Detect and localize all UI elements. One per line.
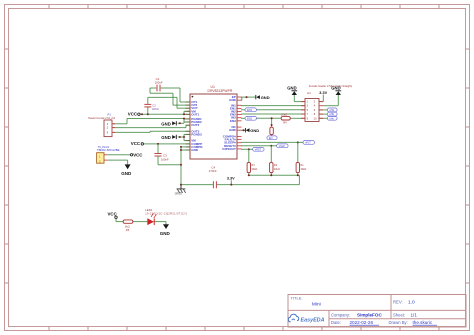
svg-text:GND: GND <box>250 128 259 133</box>
svg-text:EN3: EN3 <box>230 119 236 123</box>
svg-text:100nF: 100nF <box>155 80 163 84</box>
svg-text:GND: GND <box>261 95 270 100</box>
svg-text:V3P3OUT: V3P3OUT <box>222 147 236 151</box>
svg-text:Company:: Company: <box>331 313 350 318</box>
svg-text:Date:: Date: <box>331 320 341 325</box>
svg-text:the.skuric: the.skuric <box>413 320 433 325</box>
svg-text:DRV8313PWPR: DRV8313PWPR <box>208 89 233 93</box>
svg-text:GND: GND <box>287 85 296 90</box>
svg-text:GND: GND <box>191 148 199 152</box>
svg-text:VCC: VCC <box>131 141 141 146</box>
svg-text:GND: GND <box>229 128 237 132</box>
svg-text:R6: R6 <box>126 228 130 232</box>
svg-text:GND: GND <box>161 121 171 126</box>
svg-text:EN2: EN2 <box>247 117 252 120</box>
svg-text:uHc: uHc <box>329 117 334 120</box>
svg-text:nRST: nRST <box>255 148 262 151</box>
svg-text:10kΩ: 10kΩ <box>274 168 280 171</box>
svg-text:Sheet:: Sheet: <box>393 313 405 318</box>
svg-text:LED1: LED1 <box>145 208 153 212</box>
svg-text:3.3V: 3.3V <box>319 91 327 95</box>
svg-text:10kΩ: 10kΩ <box>300 168 306 171</box>
svg-text:P1: P1 <box>108 112 112 116</box>
svg-text:REV:: REV: <box>393 300 403 305</box>
svg-text:VCC: VCC <box>133 153 143 158</box>
svg-text:uHa: uHa <box>329 109 334 112</box>
svg-text:GND: GND <box>229 98 237 102</box>
svg-text:uHb: uHb <box>329 113 334 116</box>
svg-text:nSLP: nSLP <box>279 145 285 148</box>
svg-text:SimpleFOC: SimpleFOC <box>357 313 382 318</box>
svg-text:VCC: VCC <box>108 211 118 216</box>
svg-text:1kΩ: 1kΩ <box>125 224 130 228</box>
svg-text:GND: GND <box>160 231 171 236</box>
svg-text:Header-Female 2.54_2x2: Header-Female 2.54_2x2 <box>88 117 116 120</box>
svg-text:OUT1: OUT1 <box>191 112 199 116</box>
svg-text:Mini: Mini <box>312 301 321 307</box>
svg-text:100nF: 100nF <box>161 157 169 161</box>
svg-text:100nF: 100nF <box>152 107 160 111</box>
svg-text:19-217/Y2C-CQ2R2L/3T(CY): 19-217/Y2C-CQ2R2L/3T(CY) <box>145 212 187 216</box>
svg-text:TBD02-500-02BE: TBD02-500-02BE <box>97 148 120 152</box>
svg-text:10kΩ: 10kΩ <box>281 112 287 116</box>
svg-text:VCC: VCC <box>128 112 138 117</box>
svg-text:1/1: 1/1 <box>411 313 418 318</box>
svg-text:470nF: 470nF <box>209 169 217 173</box>
svg-text:nFLT: nFLT <box>305 141 311 144</box>
svg-text:Drawn By:: Drawn By: <box>389 320 408 325</box>
svg-text:GND: GND <box>175 192 183 196</box>
svg-text:GND: GND <box>121 171 132 176</box>
svg-text:GND: GND <box>331 85 340 90</box>
svg-text:OUT2: OUT2 <box>191 123 199 127</box>
svg-text:EN: EN <box>269 137 273 140</box>
svg-text:H1: H1 <box>307 91 311 95</box>
svg-text:EasyEDA: EasyEDA <box>301 317 325 323</box>
svg-text:R4: R4 <box>283 121 287 125</box>
svg-text:PGND3: PGND3 <box>191 132 202 136</box>
svg-text:2022-02-26: 2022-02-26 <box>350 320 374 325</box>
svg-text:EN1: EN1 <box>247 109 252 112</box>
svg-text:TITLE:: TITLE: <box>291 296 303 301</box>
svg-text:1.0: 1.0 <box>408 300 415 306</box>
svg-text:3.3V: 3.3V <box>227 177 235 181</box>
svg-text:10kΩ: 10kΩ <box>251 168 257 171</box>
svg-text:GND: GND <box>161 135 171 140</box>
